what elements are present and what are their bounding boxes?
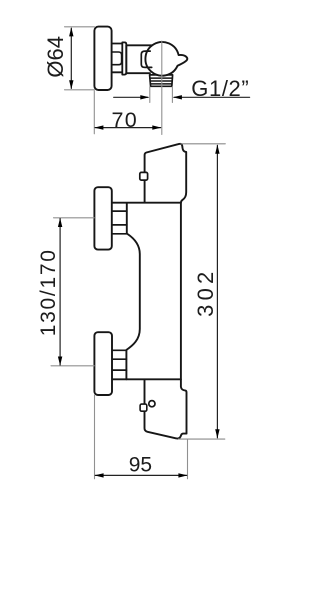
G1/2 extension lines: [150, 87, 173, 103]
bottom wall flange: [94, 332, 112, 395]
70 extension line left: [93, 91, 95, 134]
top connector ribs: [112, 211, 127, 234]
70 arrow left: [94, 125, 103, 129]
130/170 dimension line: [59, 219, 61, 365]
302 dimension line: [216, 145, 218, 437]
mixer body (horizontal): [126, 45, 166, 73]
body left contour: [126, 204, 139, 380]
302 bottom extension line: [179, 438, 225, 440]
wall flange (side view, Ø64): [94, 27, 111, 90]
cartridge cap detail: [141, 51, 151, 67]
bottom connector ribs: [112, 350, 127, 370]
Ø64 arrow top: [69, 27, 73, 36]
body bottom edge: [112, 378, 181, 380]
95 dimension line: [95, 474, 186, 476]
inner pipe stub: [112, 52, 122, 65]
G1/2 arrow right (pointing left): [173, 95, 182, 99]
G1/2 dimension line left: [114, 96, 148, 98]
130/170 extension lines: [51, 218, 94, 366]
302 arrow bottom: [215, 429, 219, 438]
svg-text:302: 302: [193, 268, 218, 317]
top wall flange: [94, 187, 111, 249]
G1/2 arrow left (pointing right): [140, 95, 149, 99]
95 extension lines: [95, 395, 188, 479]
302 top extension line: [181, 143, 225, 145]
svg-text:G1/2”: G1/2”: [191, 76, 249, 101]
Ø64 arrow bottom: [69, 80, 73, 89]
top knob button: [140, 172, 148, 180]
95 arrow right: [178, 473, 187, 477]
centerline: [161, 41, 163, 135]
130/170 arrow top: [58, 218, 62, 227]
threaded outlet G1/2: [150, 75, 173, 86]
svg-text:70: 70: [111, 108, 138, 132]
svg-text:Ø64: Ø64: [43, 36, 68, 78]
70 dimension line: [95, 127, 161, 129]
mounting neck: [112, 44, 123, 73]
collar ring: [122, 42, 126, 74]
302 arrow top: [215, 145, 219, 154]
svg-text:130/170: 130/170: [37, 248, 60, 336]
G1/2 dimension line right: [174, 96, 250, 98]
95 arrow left: [95, 473, 104, 477]
70 arrow right: [152, 125, 161, 129]
bottom knob button: [140, 404, 147, 411]
knob with pointer nub (side view): [145, 42, 187, 76]
svg-text:95: 95: [129, 454, 152, 477]
Ø64 extension lines: [65, 27, 95, 90]
top control knob (profile): [145, 144, 187, 203]
body bar outline: [112, 203, 187, 439]
130/170 arrow bottom: [58, 357, 62, 366]
bottom knob indicator circle: [149, 401, 155, 407]
Ø64 dimension line: [70, 28, 72, 88]
